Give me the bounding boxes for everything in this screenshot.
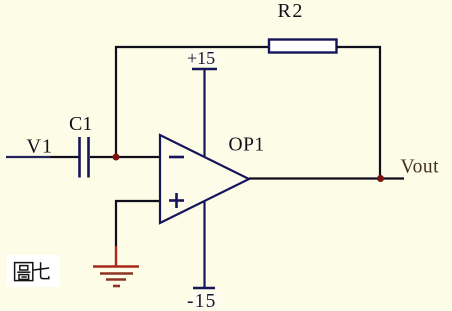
- wire output: [249, 177, 404, 179]
- junction dot node A (inverting input): [113, 154, 120, 161]
- ground bar 4: [113, 285, 120, 288]
- op-amp noninverting input plus sign: [169, 193, 184, 208]
- capacitor C1: [80, 137, 89, 178]
- wire V1 input (black segment to C1): [50, 156, 79, 158]
- label figure caption 圖七 (drawn strokes): [15, 262, 50, 280]
- ground bar 3: [106, 278, 126, 281]
- svg-text:R2: R2: [278, 0, 304, 22]
- svg-text:-15: -15: [187, 291, 217, 311]
- white halo behind +15 label: [185, 49, 220, 66]
- op-amp inverting input minus sign: [169, 156, 184, 159]
- junction dot node B (output): [377, 175, 384, 182]
- svg-text:OP1: OP1: [229, 135, 265, 156]
- label box (white backing of figure caption): [7, 255, 60, 287]
- wire feedback vertical (node A up): [115, 46, 117, 157]
- wire feedback horizontal (to R2): [115, 46, 269, 48]
- power -15 stub wire: [203, 201, 205, 288]
- wire node to ground (black upper part): [115, 200, 117, 246]
- power -15 bar: [193, 287, 215, 290]
- wire noninverting input horizontal: [115, 200, 159, 202]
- power +15 stub wire: [203, 69, 205, 157]
- svg-text:C1: C1: [69, 113, 92, 135]
- power +15 bar: [192, 68, 217, 71]
- svg-text:V1: V1: [27, 136, 54, 158]
- wire output node vertical: [379, 46, 381, 179]
- white halo behind -15 label: [189, 291, 223, 309]
- wire V1 input (navy segment): [6, 156, 50, 158]
- ground bar 1: [93, 265, 139, 268]
- resistor R2: [269, 40, 337, 53]
- wire R2 to output node corner: [337, 46, 382, 48]
- ground bar 2: [100, 272, 133, 275]
- ground stem (red): [115, 246, 117, 266]
- op-amp OP1 triangle: [160, 135, 249, 223]
- svg-text:Vout: Vout: [401, 157, 440, 178]
- wire C1 to inverting input: [90, 156, 159, 158]
- svg-text:+15: +15: [187, 48, 215, 68]
